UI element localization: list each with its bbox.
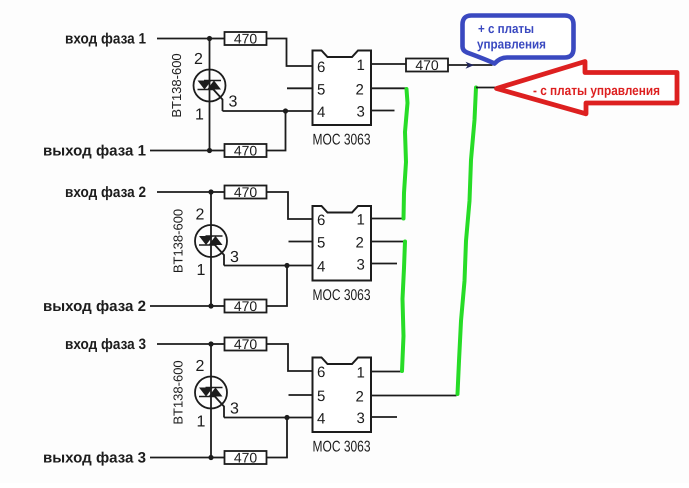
wire U3 pin1 to green bus B — [371, 371, 403, 373]
wire green bus A (U1 pin2 to U2 pin1) — [404, 89, 408, 219]
resistor R1a 470 — [225, 31, 267, 47]
svg-text:1: 1 — [357, 57, 365, 74]
wire to resistor R3b — [211, 457, 225, 459]
svg-text:5: 5 — [317, 388, 325, 405]
svg-text:BT138-600: BT138-600 — [169, 53, 184, 117]
wire gate Q1 — [213, 89, 223, 112]
junction input phase 1 — [207, 36, 212, 41]
svg-text:вход фаза 1: вход фаза 1 — [65, 31, 146, 48]
wire input phase 2 — [157, 191, 211, 193]
svg-text:470: 470 — [234, 450, 258, 466]
wire gate node to U3 pin4 — [224, 417, 313, 419]
svg-text:выход фаза 2: выход фаза 2 — [43, 298, 146, 315]
optocoupler U2 MOC 3063 — [313, 206, 372, 281]
svg-text:выход фаза 3: выход фаза 3 — [43, 450, 146, 467]
wire to resistor R2a — [211, 191, 225, 193]
svg-text:2: 2 — [356, 81, 364, 98]
svg-text:управления: управления — [477, 37, 546, 52]
wire R1c to control plus node — [448, 64, 493, 66]
svg-text:2: 2 — [356, 389, 364, 406]
wire control minus node to red arrow — [476, 87, 495, 89]
svg-text:MOC 3063: MOC 3063 — [313, 439, 371, 456]
wire output phase 1 — [150, 150, 210, 152]
wire stub U1 pin3 — [371, 110, 395, 112]
wire input phase 1 — [157, 38, 210, 40]
resistor R1c 470 — [406, 57, 448, 73]
wire stub U2 pin5 — [289, 241, 313, 243]
svg-text:470: 470 — [234, 298, 258, 314]
junction gate node 2 — [284, 263, 289, 268]
svg-text:2: 2 — [356, 235, 364, 252]
svg-text:3: 3 — [230, 249, 239, 266]
wire gate Q2 — [214, 244, 224, 266]
junction gate node 1 — [283, 108, 288, 113]
svg-text:4: 4 — [317, 259, 325, 276]
svg-text:4: 4 — [317, 411, 325, 428]
wire to resistor R1b — [210, 150, 225, 152]
resistor R3b 470 — [225, 450, 267, 466]
svg-text:470: 470 — [234, 31, 258, 47]
svg-text:3: 3 — [357, 104, 365, 121]
svg-text:вход фаза 2: вход фаза 2 — [65, 184, 146, 201]
callout bubble "+ с платы управления" — [463, 16, 574, 64]
svg-text:5: 5 — [317, 235, 325, 252]
svg-text:3: 3 — [229, 94, 238, 111]
svg-text:1: 1 — [197, 262, 206, 279]
junction input phase 3 — [208, 341, 213, 346]
wire R3b up to gate node 3 — [267, 418, 288, 458]
svg-text:1: 1 — [357, 365, 365, 382]
junction input phase 2 — [208, 189, 213, 194]
svg-text:3: 3 — [357, 257, 365, 274]
wire stub U2 pin3 — [371, 263, 397, 265]
wire gate Q3 — [214, 396, 224, 418]
svg-text:MOC 3063: MOC 3063 — [313, 287, 371, 304]
svg-text:2: 2 — [196, 207, 205, 224]
svg-text:1: 1 — [195, 107, 204, 124]
wire R1b up to gate node 1 — [267, 111, 286, 151]
svg-text:6: 6 — [317, 212, 325, 229]
svg-text:выход фаза 1: выход фаза 1 — [43, 143, 146, 160]
wire U2 pin1 to green bus A — [371, 218, 403, 220]
resistor R1b 470 — [225, 143, 267, 159]
svg-text:BT138-600: BT138-600 — [171, 209, 186, 273]
wire main vertical phase 3 — [210, 344, 212, 458]
arrow "- с платы управления" — [497, 62, 678, 114]
svg-text:6: 6 — [317, 59, 325, 76]
wire U1 pin2 to green bus A — [371, 87, 407, 89]
triac Q3 BT138-600 — [195, 377, 227, 409]
svg-text:5: 5 — [317, 81, 325, 98]
svg-text:470: 470 — [234, 143, 258, 159]
wire R2b up to gate node 2 — [267, 266, 288, 307]
svg-text:2: 2 — [194, 51, 203, 68]
optocoupler U3 MOC 3063 — [313, 358, 372, 433]
triac Q1 BT138-600 — [194, 70, 226, 102]
wire gate node to U1 pin4 — [223, 110, 313, 112]
svg-text:1: 1 — [357, 212, 365, 229]
svg-text:+ с платы: + с платы — [478, 21, 534, 36]
svg-text:6: 6 — [317, 364, 325, 381]
wire output phase 3 — [150, 457, 211, 459]
junction output phase 2 — [208, 303, 213, 308]
svg-text:1: 1 — [197, 414, 206, 431]
wire to resistor R2b — [211, 305, 225, 307]
wire output phase 2 — [150, 305, 211, 307]
wire U3 pin2 to green bus C — [371, 395, 457, 397]
wire green bus C (control minus to U3 pin2) — [458, 88, 477, 395]
junction output phase 3 — [208, 455, 213, 460]
wire R1a to U1 pin6 — [267, 39, 313, 67]
svg-text:470: 470 — [234, 336, 258, 352]
wire stub U1 pin5 — [287, 87, 313, 89]
wire input phase 3 — [157, 343, 211, 345]
svg-text:MOC 3063: MOC 3063 — [313, 132, 371, 149]
optocoupler U1 MOC 3063 — [313, 51, 372, 126]
svg-text:2: 2 — [196, 358, 205, 375]
wire stub U3 pin5 — [289, 394, 313, 396]
resistor R2a 470 — [225, 184, 267, 200]
wire main vertical phase 1 — [209, 39, 211, 151]
wire gate node to U2 pin4 — [224, 265, 313, 267]
svg-text:- с платы управления: - с платы управления — [533, 83, 660, 98]
svg-text:3: 3 — [230, 401, 239, 418]
wire to resistor R1a — [210, 38, 225, 40]
resistor R2b 470 — [225, 298, 267, 314]
svg-text:470: 470 — [234, 184, 258, 200]
wire main vertical phase 2 — [210, 192, 212, 306]
resistor R3a 470 — [225, 336, 267, 352]
wire U2 pin2 to green bus B — [371, 241, 406, 243]
junction output phase 1 — [207, 148, 212, 153]
svg-text:BT138-600: BT138-600 — [171, 360, 186, 424]
wire R2a to U2 pin6 — [267, 192, 313, 219]
svg-text:470: 470 — [415, 57, 439, 73]
wire stub U3 pin3 — [371, 416, 397, 418]
svg-text:вход фаза 3: вход фаза 3 — [65, 336, 146, 353]
wire green bus B (U2 pin2 to U3 pin1) — [402, 242, 405, 372]
arrowhead on control plus wire — [466, 62, 475, 69]
junction gate node 3 — [284, 415, 289, 420]
wire to resistor R3a — [211, 343, 225, 345]
wire R3a to U3 pin6 — [267, 344, 313, 371]
svg-text:3: 3 — [357, 410, 365, 427]
wire U1 pin1 to R1c — [371, 63, 406, 65]
svg-text:4: 4 — [317, 104, 325, 121]
triac Q2 BT138-600 — [195, 225, 227, 257]
